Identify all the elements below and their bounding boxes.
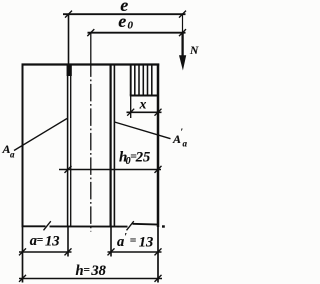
extension centerline to e0 <box>90 33 92 64</box>
dimension line h <box>19 278 162 280</box>
extension left edge below <box>22 227 24 283</box>
tick e left <box>65 11 72 18</box>
section bottom edge mid part <box>50 225 128 227</box>
svg-text:38: 38 <box>90 263 106 279</box>
compression bar A'a line 2 <box>113 64 115 227</box>
svg-text:=: = <box>37 234 44 246</box>
hatch bottom line <box>130 95 159 97</box>
force N line <box>181 32 183 58</box>
section bottom edge right part <box>133 223 160 226</box>
compression zone hatch left border <box>130 64 132 96</box>
tick a right <box>65 248 72 255</box>
svg-text:13: 13 <box>45 233 60 249</box>
tension bar anchor blob <box>67 64 72 76</box>
tick e right <box>179 11 186 18</box>
svg-text:h: h <box>76 263 84 279</box>
leader A'a <box>115 122 171 139</box>
extension right edge below <box>157 227 159 283</box>
dimension line h0 <box>59 169 161 171</box>
svg-text:=: = <box>130 235 137 247</box>
svg-text:25: 25 <box>135 150 151 166</box>
extension tension bar below <box>67 227 69 257</box>
break mark 2 <box>127 221 134 230</box>
svg-text:x: x <box>139 97 147 112</box>
dimension line x <box>127 111 162 113</box>
dimension line e <box>63 13 186 15</box>
tick e0 right <box>179 29 186 36</box>
break mark 1 <box>44 221 51 230</box>
tension bar Aa line 2 <box>70 64 72 226</box>
tick h0 right <box>155 166 162 173</box>
svg-text:′: ′ <box>124 232 127 243</box>
centerline dash-dot <box>90 64 92 232</box>
tick h left <box>19 275 26 282</box>
dimension line a <box>19 251 72 253</box>
tick a' left <box>108 248 115 255</box>
compression bar A'a line 1 <box>109 64 111 227</box>
svg-text:a: a <box>10 150 15 160</box>
leader Aa <box>14 119 67 151</box>
dimension line a' <box>108 251 162 253</box>
tick x left <box>127 109 134 116</box>
section left edge <box>22 64 24 228</box>
hatch line 5 <box>151 66 153 95</box>
tick e0 left <box>87 29 94 36</box>
hatch line 1 <box>134 66 136 95</box>
svg-text:e: e <box>118 11 126 31</box>
svg-text:a: a <box>183 139 188 149</box>
svg-text:=: = <box>83 264 90 276</box>
extension hatch boundary below <box>130 96 132 119</box>
hatch line 4 <box>147 66 149 95</box>
force N line upper segment <box>182 15 184 32</box>
svg-text:13: 13 <box>139 234 154 250</box>
section right edge <box>157 64 160 228</box>
extension line tension bar to e <box>68 14 70 64</box>
svg-text:0: 0 <box>128 20 134 32</box>
tension bar Aa line 1 <box>67 64 69 226</box>
extension compression bar below <box>110 227 112 257</box>
force N arrowhead <box>179 55 186 70</box>
tick h right <box>155 275 162 282</box>
tick a left <box>19 248 26 255</box>
hatch line 3 <box>142 66 144 95</box>
section top edge <box>22 63 160 65</box>
tick h0 left <box>65 166 72 173</box>
svg-text:N: N <box>189 45 199 57</box>
svg-text:a: a <box>117 234 124 250</box>
section bottom edge left part <box>22 225 46 227</box>
tick a' right <box>155 248 162 255</box>
hatch line 2 <box>138 66 140 95</box>
dash-dot dot after bottom edge <box>162 225 165 227</box>
dimension line e0 <box>88 32 186 34</box>
tick x right <box>155 109 162 116</box>
